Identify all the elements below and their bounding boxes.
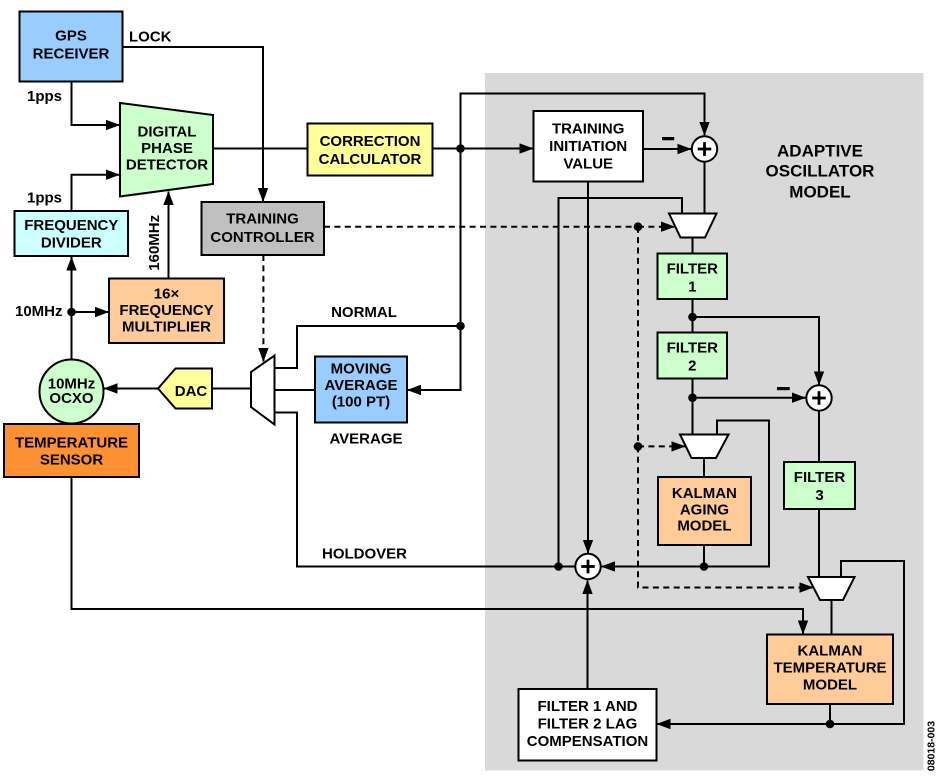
lag compensation box [519, 689, 657, 761]
wire training initiation value to summer 1 [643, 148, 691, 150]
wire mux B to filter 1 [692, 238, 694, 254]
wire 1pps divider to phase detector [72, 175, 120, 212]
wire kalman aging model to summer 3 [602, 545, 705, 567]
svg-text:VALUE: VALUE [563, 156, 613, 173]
wire filter 3 to mux D [818, 509, 820, 577]
svg-text:CONTROLLER: CONTROLLER [210, 229, 314, 246]
wire mux C to kalman aging model [703, 458, 705, 477]
svg-text:1: 1 [688, 279, 696, 296]
svg-text:TEMPERATURE: TEMPERATURE [15, 435, 128, 452]
svg-text:OCXO: OCXO [49, 390, 94, 407]
svg-text:SENSOR: SENSOR [40, 452, 104, 469]
svg-text:FILTER: FILTER [667, 340, 719, 357]
wire DAC to OCXO [104, 388, 158, 390]
frequency divider box [15, 211, 129, 256]
filter 2 box [658, 333, 728, 379]
junction node dashed mux B branch [634, 222, 643, 231]
svg-text:MODEL: MODEL [803, 677, 857, 694]
wire node to training initiation value [461, 148, 534, 150]
svg-text:FILTER 1 AND: FILTER 1 AND [538, 698, 638, 715]
filter 1 box [658, 254, 728, 300]
wire lag compensation to summer 3 [587, 581, 589, 690]
wire phase detector to correction calculator [213, 148, 308, 150]
junction node normal branch [456, 322, 465, 331]
svg-text:TRAINING: TRAINING [552, 121, 625, 138]
junction node filter 2 output [688, 393, 697, 402]
svg-text:TEMPERATURE: TEMPERATURE [773, 660, 886, 677]
dashed wire down and over to mux D [638, 446, 813, 587]
junction node filter 1 output [688, 313, 697, 322]
junction node kalman aging output [700, 562, 709, 571]
wire kalman aging feedback to mux C [704, 421, 769, 567]
mux C [680, 435, 729, 459]
temperature sensor box [4, 424, 139, 477]
summer 1 [692, 136, 717, 161]
svg-text:FREQUENCY: FREQUENCY [24, 217, 118, 234]
svg-text:PHASE: PHASE [141, 140, 193, 157]
junction node dashed mux C branch [634, 442, 643, 451]
summer 3 [575, 554, 600, 579]
svg-text:LOCK: LOCK [129, 29, 172, 46]
training initiation value box [534, 111, 644, 182]
wire HOLDOVER mux A to summer 3 [275, 413, 576, 567]
svg-text:DETECTOR: DETECTOR [126, 157, 208, 174]
svg-text:COMPENSATION: COMPENSATION [527, 733, 648, 750]
wire 1pps GPS to phase detector [72, 81, 120, 125]
kalman temperature model box [767, 635, 893, 705]
wire moving average to mux A [275, 389, 316, 391]
svg-text:ADAPTIVE: ADAPTIVE [777, 142, 863, 161]
svg-text:FILTER: FILTER [794, 469, 846, 486]
wire filter 1 to filter 2 [692, 299, 694, 333]
svg-text:TRAINING: TRAINING [226, 211, 299, 228]
wire summer 1 to mux B [704, 162, 706, 214]
wire temperature sensor to kalman temperature model [72, 477, 804, 634]
label adaptive oscillator model [766, 142, 875, 202]
OCXO circle [40, 360, 104, 424]
svg-text:MULTIPLIER: MULTIPLIER [122, 319, 211, 336]
wire node up and over to summer 1 [461, 94, 705, 149]
svg-text:GPS: GPS [55, 28, 87, 45]
svg-text:DIGITAL: DIGITAL [138, 124, 197, 141]
junction node kalman temperature output [826, 720, 835, 729]
dashed wire down to mux C [637, 227, 639, 447]
dashed wire training controller to mux B [324, 226, 638, 228]
svg-text:3: 3 [815, 487, 823, 504]
svg-text:10MHz: 10MHz [15, 303, 63, 320]
minus sign at summer 1 [662, 137, 674, 140]
svg-text:2: 2 [688, 358, 696, 375]
mux D [808, 577, 855, 600]
correction calculator box [308, 124, 433, 176]
summer 2 [806, 385, 831, 410]
wire mux A to DAC [212, 388, 251, 390]
wire mux D to kalman temperature model [831, 600, 833, 635]
wire training initiation value bottom to summer 3 [587, 182, 589, 554]
wire 10MHz tap to multiplier [72, 311, 109, 313]
wire LOCK from GPS to training controller [123, 47, 264, 202]
svg-text:FILTER 2 LAG: FILTER 2 LAG [538, 716, 638, 733]
svg-text:DAC: DAC [175, 383, 208, 400]
svg-text:08018-003: 08018-003 [926, 721, 938, 771]
adaptive oscillator model shaded region [485, 73, 924, 771]
training controller box [202, 202, 325, 255]
minus sign at summer 2 [777, 387, 790, 390]
svg-text:AGING: AGING [680, 501, 729, 518]
DAC symbol [158, 369, 212, 409]
filter 3 box [784, 462, 855, 509]
wire NORMAL branch to mux A [275, 326, 461, 368]
kalman aging model box [658, 477, 751, 545]
svg-text:(100 PT): (100 PT) [332, 394, 390, 411]
svg-text:HOLDOVER: HOLDOVER [322, 546, 407, 563]
svg-text:NORMAL: NORMAL [331, 304, 397, 321]
digital phase detector [120, 103, 213, 197]
wire node down to moving average [408, 149, 461, 391]
svg-text:RECEIVER: RECEIVER [33, 46, 110, 63]
junction node correction output [456, 144, 465, 153]
svg-text:OSCILLATOR: OSCILLATOR [766, 162, 875, 181]
svg-text:MODEL: MODEL [789, 183, 850, 202]
svg-text:CORRECTION: CORRECTION [320, 133, 421, 150]
svg-text:FILTER: FILTER [667, 261, 719, 278]
mux B [669, 214, 717, 238]
svg-text:16×: 16× [154, 286, 180, 303]
wire filter 2 node to summer 2 [693, 397, 806, 399]
wire kalman temperature model to lag compensation [657, 704, 830, 724]
svg-text:1pps: 1pps [27, 190, 62, 207]
wire 160MHz multiplier to phase detector [168, 192, 170, 279]
svg-text:MODEL: MODEL [677, 518, 731, 535]
svg-text:KALMAN: KALMAN [672, 485, 737, 502]
wire filter 2 to mux C [692, 379, 694, 435]
dashed wire training controller to mux A [262, 255, 264, 362]
svg-text:DIVIDER: DIVIDER [41, 235, 102, 252]
svg-text:160MHz: 160MHz [146, 215, 163, 271]
wire summer 2 to filter 3 [818, 411, 820, 463]
svg-text:KALMAN: KALMAN [798, 643, 863, 660]
svg-text:AVERAGE: AVERAGE [324, 377, 397, 394]
svg-text:CALCULATOR: CALCULATOR [319, 151, 422, 168]
svg-text:1pps: 1pps [27, 88, 62, 105]
junction node 10MHz tap [67, 308, 76, 317]
junction node holdover tap [554, 562, 563, 571]
mux A [251, 356, 275, 425]
wire kalman temperature feedback to mux D [830, 561, 904, 724]
svg-text:INITIATION: INITIATION [549, 138, 627, 155]
wire holdover tap up to mux B [559, 198, 683, 567]
moving average box [315, 357, 407, 423]
wire correction calculator to node [433, 148, 461, 150]
wire filter 1 node to summer 2 [693, 317, 820, 385]
frequency multiplier box [109, 279, 224, 344]
svg-text:AVERAGE: AVERAGE [329, 431, 402, 448]
wire OCXO to frequency divider [71, 257, 73, 360]
svg-text:MOVING: MOVING [331, 361, 392, 378]
GPS receiver box [20, 12, 123, 82]
svg-text:FREQUENCY: FREQUENCY [119, 302, 213, 319]
